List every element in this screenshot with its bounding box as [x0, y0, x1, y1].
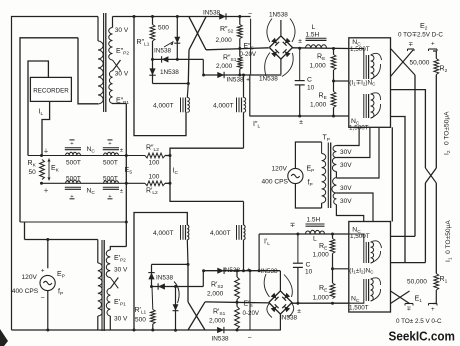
- wire RE bottom stub: [333, 108, 335, 117]
- wire tap2: [336, 127, 370, 157]
- node RE' mid: [331, 267, 334, 270]
- NC winding lower-1 core: [363, 242, 365, 263]
- wire box connector right: [391, 127, 393, 221]
- wire secondary bottom to Es line: [113, 102, 127, 104]
- wire box l in top: [349, 234, 364, 242]
- svg-text:±: ±: [120, 148, 123, 154]
- resistor RE top: [331, 55, 336, 71]
- svg-text:1,000: 1,000: [313, 252, 330, 259]
- svg-text:∓: ∓: [408, 41, 413, 48]
- svg-text:IN538: IN538: [156, 275, 173, 282]
- wire rail bot500: [42, 182, 146, 184]
- diode 1N538 on lower branch: [173, 304, 179, 310]
- wire x405 vertical: [391, 117, 406, 263]
- crossover X2: [425, 168, 436, 183]
- wire R'S mid: [236, 300, 238, 307]
- node rail3 left: [151, 58, 154, 61]
- svg-text:500T: 500T: [103, 160, 118, 167]
- svg-text:C: C: [306, 262, 311, 269]
- wire rail4': [203, 270, 280, 272]
- svg-text:IN538: IN538: [212, 336, 229, 343]
- wire rail4: [203, 74, 281, 76]
- svg-text:50: 50: [29, 169, 37, 176]
- wire rail3: [153, 58, 204, 60]
- wire 4000T ur bottom: [243, 112, 245, 148]
- bridge rectifier bottom diamond: [269, 291, 292, 314]
- svg-text:∔: ∔: [43, 148, 48, 155]
- svg-text:1N538: 1N538: [269, 12, 288, 19]
- svg-text:SeekIC.com: SeekIC.com: [389, 329, 456, 344]
- svg-text:30V: 30V: [340, 162, 352, 169]
- wire filter rail2ext: [293, 47, 349, 50]
- wire R'S bottom stub: [236, 329, 238, 330]
- leader arc lower branch: [174, 282, 179, 304]
- wire I''L rail: [250, 115, 349, 117]
- wire Ep to Tp top: [295, 142, 321, 168]
- T'' primary wire bottom: [78, 38, 98, 104]
- winding 4000T upper-right coil: [244, 98, 246, 113]
- capacitor C plates: [295, 80, 305, 82]
- wire box l in bottom: [349, 301, 364, 303]
- wire RS mid: [239, 39, 241, 57]
- wire rail2': [205, 302, 269, 303]
- capacitor C' plates: [293, 262, 303, 264]
- node RE1 top: [332, 47, 335, 50]
- saturable reactor box upper: [349, 38, 391, 128]
- node C' top: [296, 233, 299, 236]
- node rail2' RS junction: [236, 301, 239, 304]
- svg-text:50,000: 50,000: [410, 60, 430, 67]
- wire R'L1 links: [151, 287, 154, 310]
- wire x415 bottom stub: [391, 235, 416, 237]
- winding 4000T upper-left coil: [187, 98, 189, 113]
- svg-text:±: ±: [297, 308, 301, 315]
- wire RE' mid: [332, 254, 334, 284]
- node rail1 box-left: [133, 15, 136, 18]
- svg-text:50,000: 50,000: [407, 279, 427, 286]
- node rail3' diag: [174, 285, 177, 288]
- node railbot RK: [40, 182, 43, 185]
- wire tap5: [336, 205, 363, 222]
- wire x405 bottom stub: [391, 262, 426, 264]
- core bars 500T bot-left: [65, 186, 81, 188]
- node C top: [298, 47, 301, 50]
- Tp secondary coil 2: [332, 158, 336, 172]
- winding 4000T upper-left core: [180, 98, 182, 113]
- wire bottom rail1' (main bottom rail): [12, 329, 281, 331]
- wire tap1: [336, 127, 359, 145]
- node R'L1 bottom: [151, 329, 154, 332]
- svg-text:10: 10: [307, 85, 315, 92]
- svg-text:1,500T: 1,500T: [350, 46, 370, 53]
- svg-text:4,000T: 4,000T: [153, 103, 174, 110]
- svg-text:120V: 120V: [22, 274, 38, 281]
- winding 4000T lower-right core: [236, 225, 238, 240]
- svg-text:±: ±: [299, 119, 303, 126]
- winding 4000T lower-right coil: [244, 225, 246, 240]
- node Es y222: [125, 221, 128, 224]
- svg-text:500: 500: [158, 25, 169, 32]
- capacitor C' wire: [297, 234, 299, 263]
- diode IN538 on rail4': [217, 268, 224, 274]
- svg-text:30V: 30V: [340, 198, 352, 205]
- node C' bottom: [296, 302, 299, 305]
- node R'S bottom: [236, 329, 239, 332]
- svg-text:2,000: 2,000: [216, 63, 233, 70]
- node winding bottom-left: [187, 263, 190, 266]
- Tp primary coil: [322, 154, 326, 204]
- resistor R''L1 500: [150, 25, 155, 42]
- Tp secondary coil 3: [332, 178, 337, 194]
- bridge arcs bottom: [265, 53, 270, 77]
- wire 4000T ul top: [187, 84, 188, 98]
- svg-text:500: 500: [135, 317, 146, 324]
- svg-text:C: C: [307, 77, 312, 84]
- wire below down-diode: [152, 59, 154, 83]
- diode IN538 on rail1': [217, 327, 224, 333]
- NC winding lower-1 coil: [371, 242, 374, 263]
- node railbot Es: [125, 182, 128, 185]
- wire R1 bottom: [433, 290, 436, 304]
- wire tap3: [336, 127, 379, 178]
- svg-text:4,000T: 4,000T: [153, 230, 174, 237]
- wire rail top500: [28, 155, 145, 157]
- wire R2 top: [433, 51, 436, 59]
- svg-text:30V: 30V: [340, 149, 352, 156]
- wire rail2' ext: [291, 302, 348, 304]
- Tp secondary mid link: [335, 172, 337, 178]
- diode 1N538 up: [148, 273, 154, 280]
- svg-text:120V: 120V: [272, 166, 288, 173]
- node rail4 winding: [242, 74, 245, 77]
- svg-text:−: −: [247, 335, 251, 342]
- wire I''L up-stub: [249, 74, 251, 116]
- resistor R2 50000: [434, 59, 439, 75]
- svg-text:+: +: [246, 267, 250, 274]
- svg-text:4,000T: 4,000T: [213, 103, 234, 110]
- bridge' bottom stub: [279, 314, 281, 330]
- diode IN538 on rail3': [158, 283, 165, 289]
- NC winding upper-2 coil: [371, 94, 374, 118]
- svg-text:400 CPS: 400 CPS: [262, 179, 289, 186]
- svg-text:L: L: [313, 236, 317, 243]
- svg-text:500T: 500T: [66, 160, 81, 167]
- svg-text:30 V: 30 V: [114, 267, 128, 274]
- wire rail2: [206, 48, 269, 50]
- wire box u in: [349, 49, 364, 56]
- diode 1N538 down: [149, 68, 155, 75]
- T' secondary coil lower (E'P1): [106, 288, 110, 316]
- bridge top diodes: [271, 38, 277, 44]
- wire RE top stub: [333, 49, 335, 55]
- core bars 500T bot-right: [103, 186, 119, 188]
- winding 4000T lower-left coil: [187, 225, 189, 240]
- diode 1N538 on rail3: [162, 56, 169, 62]
- resistor RE' top: [330, 239, 335, 254]
- inductor L coil: [306, 45, 327, 48]
- inductor L core bars: [306, 37, 327, 39]
- svg-text:RECORDER: RECORDER: [33, 88, 69, 95]
- ac source Ep circle: [288, 168, 303, 183]
- svg-text:500T: 500T: [103, 176, 118, 183]
- bridge rectifier top diamond: [269, 36, 292, 59]
- svg-text:∓: ∓: [290, 222, 296, 229]
- T'' secondary coil upper (E''P2): [109, 28, 113, 61]
- node IC bottom: [169, 182, 172, 185]
- wire RE mid: [333, 70, 335, 92]
- svg-text:1,000: 1,000: [310, 63, 327, 70]
- svg-text:0-20V: 0-20V: [240, 51, 257, 58]
- svg-text:100: 100: [149, 160, 160, 167]
- coil 500T top-right: [104, 152, 119, 155]
- node 120V top: [46, 238, 49, 241]
- node rail4' left: [202, 269, 205, 272]
- svg-text:IN538: IN538: [280, 315, 297, 322]
- transformer T' core: [101, 240, 103, 331]
- wire x415 vertical: [414, 75, 416, 236]
- node railtop Es: [125, 154, 128, 157]
- node rail1' diode-branch: [174, 329, 177, 332]
- wire E'S measure line: [249, 271, 251, 330]
- NC winding upper-2 core: [363, 94, 365, 118]
- wire second loop (to 120V source): [20, 38, 78, 222]
- wire 4000T ll bottom: [186, 240, 189, 265]
- bridge' arcs bottom: [267, 303, 272, 318]
- wire Es vertical: [125, 104, 127, 247]
- wire X2 right down to R1: [435, 183, 437, 274]
- resistor R''L2 100: [145, 153, 165, 158]
- node I'L rail4': [258, 269, 261, 272]
- T'' secondary wire top: [112, 17, 114, 28]
- recorder box: [30, 77, 71, 101]
- node winding top-left: [187, 82, 190, 85]
- node RE'2 bottom: [331, 302, 334, 305]
- wire top rail1: [113, 16, 251, 18]
- node RE2 bottom: [332, 115, 335, 118]
- svg-text:1.5H: 1.5H: [307, 217, 321, 224]
- svg-text:1N538: 1N538: [160, 69, 179, 76]
- wire RS top stub: [239, 17, 241, 25]
- node R'S top: [236, 269, 239, 272]
- wire X to winding vertical: [187, 50, 190, 84]
- diode IN538 on rail4: [217, 72, 224, 78]
- resistor R1 50000: [434, 274, 439, 291]
- resistor R'S1 2000: [235, 307, 240, 330]
- coil 500T top-left: [66, 152, 81, 155]
- NC winding lower-1 arcs: [371, 241, 382, 248]
- bridge bottom diodes: [271, 293, 277, 299]
- core bars 500T top-right: [103, 147, 119, 149]
- wire Ep to Tp bottom: [295, 184, 321, 208]
- svg-text:L: L: [312, 24, 316, 31]
- svg-text:0 TO∓2.5V D-C: 0 TO∓2.5V D-C: [398, 32, 443, 39]
- T'' primary coil: [98, 41, 103, 104]
- bridge top corner stub: [280, 20, 282, 36]
- wire I'L rail: [259, 233, 349, 235]
- T'' primary wire top: [97, 17, 99, 42]
- wire lower box-left: [134, 213, 187, 331]
- Tp core: [327, 143, 329, 209]
- svg-text:1,000: 1,000: [313, 295, 330, 302]
- terminal E2 minus: [408, 48, 415, 50]
- node rail1 diode-branch: [176, 15, 179, 18]
- NC winding lower-2 arcs: [371, 278, 381, 285]
- wire second-loop bottom jog to 120V rail: [20, 221, 126, 223]
- diode 1N538 on rail1: [219, 13, 226, 19]
- node rail1 R''L1: [151, 15, 154, 18]
- diode 1N538 on branch: [174, 37, 180, 43]
- capacitor C wire: [299, 48, 301, 80]
- svg-text:2,000: 2,000: [216, 37, 233, 44]
- NC winding upper-1 core: [363, 55, 365, 79]
- node C bottom: [298, 115, 301, 118]
- inductor L' core bars: [306, 223, 325, 225]
- wire X' line B: [188, 302, 205, 330]
- node IC top: [169, 154, 172, 157]
- wire I'L drop: [258, 234, 260, 271]
- svg-text:30V: 30V: [340, 185, 352, 192]
- node RE mid: [332, 80, 335, 83]
- terminal E1 minus: [405, 303, 413, 305]
- svg-text:2,000: 2,000: [209, 318, 226, 325]
- wire chain to winding: [153, 83, 189, 85]
- winding 4000T upper-right core: [236, 98, 238, 113]
- wire winding-chain lower: [152, 263, 189, 265]
- T' primary coil: [98, 263, 102, 316]
- node rail3 diag: [176, 58, 179, 61]
- svg-text:±: ±: [298, 38, 302, 45]
- svg-text:−: −: [41, 295, 45, 302]
- wire source stub bottom: [47, 291, 49, 330]
- wire IC step top: [170, 148, 244, 201]
- diode branch vertical: [176, 17, 178, 60]
- wire X upper line A: [189, 17, 206, 50]
- svg-text:2,000: 2,000: [207, 291, 224, 298]
- wire mini-X B: [391, 50, 414, 77]
- svg-text:30 V: 30 V: [115, 27, 129, 34]
- node E'S top: [249, 269, 252, 272]
- NC winding lower-2 core: [363, 279, 365, 301]
- terminal E1 plus: [429, 303, 438, 305]
- wire RS bottom stub: [239, 69, 241, 75]
- wire 4000T lr bottom: [243, 240, 245, 271]
- wire R''L1 to rail3: [152, 41, 154, 59]
- resistor R''S1 2000: [237, 57, 242, 70]
- coil 500T bot-right: [104, 180, 119, 183]
- wire 4000T lr top: [243, 201, 245, 225]
- core bars 500T top-left: [65, 147, 81, 149]
- svg-text:∓: ∓: [406, 306, 411, 313]
- svg-text:500T: 500T: [66, 176, 81, 183]
- node RE'1 top: [331, 233, 334, 236]
- T'' secondary coil lower (E''P1): [109, 71, 113, 104]
- wire tap4: [336, 193, 373, 222]
- wire x425 stub: [391, 90, 426, 168]
- wire box-left: [134, 17, 186, 136]
- svg-text:0-20V: 0-20V: [243, 310, 260, 317]
- resistor R'S2 2000: [235, 277, 240, 300]
- node railtop RK: [40, 154, 43, 157]
- svg-text:IN538: IN538: [227, 77, 244, 84]
- wire rail3' drop up: [202, 271, 204, 287]
- wire source stub top: [47, 240, 49, 269]
- svg-text:10: 10: [305, 269, 313, 276]
- node rail1 RS column: [238, 15, 241, 18]
- svg-text:−: −: [248, 11, 252, 18]
- node RS bottom: [238, 74, 241, 77]
- wire recorder top loop: [28, 61, 48, 156]
- Tp secondary coil 4: [333, 193, 336, 205]
- svg-text:4,000T: 4,000T: [210, 230, 231, 237]
- svg-text:400 CPS: 400 CPS: [12, 288, 39, 295]
- T' secondary wire bottom: [109, 316, 111, 330]
- svg-text:0 TO± 2.5 V 0-C: 0 TO± 2.5 V 0-C: [396, 318, 442, 325]
- wire RE' top stub: [332, 234, 334, 239]
- bridge' top stub: [279, 271, 281, 291]
- resistor R'L1 500: [150, 310, 155, 325]
- resistor R''S2 2000: [237, 25, 242, 39]
- node rail2 RS junction: [238, 47, 241, 50]
- node rail4 left: [202, 74, 205, 77]
- svg-text:1N538: 1N538: [259, 76, 278, 83]
- wire X' to winding vertical: [187, 264, 189, 302]
- resistor R'L2 100: [145, 181, 165, 186]
- T'' secondary crossover: [113, 60, 121, 71]
- bridge' arcs top: [264, 274, 269, 297]
- node 120V bottom: [46, 329, 49, 332]
- terminal E2 plus: [429, 48, 438, 50]
- NC winding lower-2 coil: [371, 279, 374, 301]
- svg-text:30 V: 30 V: [115, 71, 129, 78]
- winding 4000T lower-left core: [180, 225, 182, 240]
- svg-text:∔: ∔: [43, 188, 48, 195]
- T' secondary coil upper (E'P2): [106, 250, 110, 278]
- bridge bottom corner stub: [280, 59, 282, 74]
- wire R'S top stub: [236, 271, 238, 277]
- bridge arcs top: [267, 19, 272, 43]
- svg-text:±: ±: [120, 189, 123, 195]
- wire 4000T ur top: [243, 75, 245, 98]
- resistor RE bottom: [331, 92, 336, 108]
- T' primary wire bottom: [97, 316, 99, 330]
- Tp primary wire: [321, 142, 323, 154]
- wire mid-rail to box: [334, 80, 349, 82]
- resistor RK 50: [40, 160, 45, 180]
- NC winding upper-1 arcs: [371, 53, 382, 60]
- node lr rail4': [242, 269, 245, 272]
- svg-text:IN538: IN538: [261, 268, 278, 275]
- EK measure arrows: [48, 159, 50, 181]
- leader arrow to branch diode: [164, 42, 174, 48]
- resistor RE' bottom: [330, 283, 335, 299]
- saturable reactor box lower: [349, 222, 391, 313]
- svg-text:+: +: [41, 268, 45, 275]
- wire mini-X A: [391, 49, 416, 76]
- diode branch vertical lower: [175, 287, 177, 331]
- NC winding upper-2 arcs: [371, 93, 381, 100]
- svg-text:IN538: IN538: [203, 10, 220, 17]
- wire E''S measure line: [250, 19, 252, 75]
- wire X' line A: [188, 302, 205, 330]
- svg-text:100: 100: [149, 174, 160, 181]
- wire X2 left down: [424, 183, 426, 263]
- svg-text:1.5H: 1.5H: [306, 32, 320, 39]
- wire rail3 drop: [202, 59, 204, 75]
- wire mini-X' B: [391, 291, 410, 304]
- Tp secondary coil 1: [333, 146, 336, 158]
- wire up-diode link: [151, 264, 153, 286]
- svg-text:+: +: [431, 41, 435, 48]
